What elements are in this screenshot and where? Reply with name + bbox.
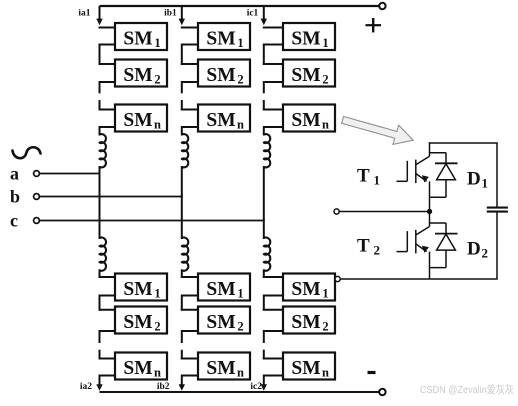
svg-text:SM: SM [206,358,235,379]
wire: upper arm drop from DC+ bus, phase c [263,6,265,20]
wire: dashed continuation (omitted SMs), upper arm phase a [99,81,101,93]
svg-text:n: n [154,366,161,380]
svg-text:D: D [467,168,481,189]
inductor: upper arm reactor, phase c [264,134,270,167]
wire: SM1 output stub, lower arm phase b [182,295,198,297]
svg-text:2: 2 [322,320,328,334]
submodule SM2, upper arm phase c [283,60,335,87]
wire: SMn to arm inductor, upper arm phase c [263,126,265,136]
svg-text:CSDN @Zevalin爱灰灰: CSDN @Zevalin爱灰灰 [420,383,514,396]
wire: SM1-SM2 link, upper arm phase a [99,44,101,66]
svg-text:c: c [10,211,18,231]
svg-text:1: 1 [154,36,160,50]
svg-text:SM: SM [291,279,320,300]
wire: SM2 output stub, lower arm phase c [264,330,283,332]
wire: SM2 output stub, upper arm phase b [182,81,198,83]
submodule SM1, lower arm phase a [115,274,167,301]
svg-text:n: n [322,366,329,380]
submodule SM1, upper arm phase a [115,23,167,50]
svg-text:T: T [357,236,370,257]
wire: stub to SM1 input, lower arm phase a [99,276,116,278]
wire: stub to SM2 input, lower arm phase a [99,309,116,311]
submodule SM2, upper arm phase b [198,60,250,87]
node: phase b AC terminal [34,194,40,200]
wire: SM2 output stub, lower arm phase b [182,330,198,332]
svg-text:ia1: ia1 [78,9,90,19]
svg-text:1: 1 [237,287,243,301]
wire: stub to SM1 input, lower arm phase b [181,276,198,278]
wire: SMn to arm inductor, upper arm phase a [99,126,101,136]
wire: dashed continuation (omitted SMs), lower arm phase c [263,330,265,343]
wire: inductor to SM1, lower arm phase c [263,269,265,278]
svg-text:a: a [10,164,19,184]
svg-text:2: 2 [322,73,328,87]
inductor: lower arm reactor, phase c [264,238,270,271]
wire: SM detail top rail [429,142,498,144]
submodule SM1, upper arm phase b [198,23,250,50]
wire: T1 emitter to midpoint [429,181,431,211]
wire: top DC bus (positive rail) [100,5,383,7]
wire: stub to SMn input, upper arm phase a [99,109,116,111]
svg-text:SM: SM [123,110,152,131]
submodule SMn, lower arm phase b [198,353,250,380]
wire: SM1-SM2 link, upper arm phase c [263,44,265,66]
wire: stub to SMn input, lower arm phase c [263,358,283,360]
wire: rail segment midpoint to T2 [429,212,431,227]
svg-text:1: 1 [374,172,381,187]
wire: SM2 output stub, lower arm phase a [100,330,116,332]
wire: stub to SM1 input, upper arm phase a [99,27,116,29]
wire: dashed continuation (omitted SMs), upper arm phase b [181,81,183,93]
submodule SM1, lower arm phase c [283,274,335,301]
submodule SMn, lower arm phase a [115,353,167,380]
submodule SMn, upper arm phase b [198,105,250,132]
wire: SM1 output stub, lower arm phase a [100,295,116,297]
submodule SM1, upper arm phase c [283,23,335,50]
wire: phase b line to leg midpoint [40,196,183,198]
wire: SM1 output stub, upper arm phase c [264,44,283,46]
svg-text:2: 2 [154,320,160,334]
wire: phase c line to leg midpoint [40,220,265,222]
svg-text:SM: SM [291,29,320,50]
node: SM detail mid terminal [334,209,339,214]
wire: phase a line to leg midpoint [40,173,101,175]
label: + (positive pole) [366,18,382,32]
wire: SM1-SM2 link, lower arm phase c [263,295,265,311]
node: midpoint junction dot [427,209,432,214]
svg-text:b: b [10,187,20,207]
svg-text:ic2: ic2 [250,382,262,392]
wire: stub to SM1 input, lower arm phase c [263,276,283,278]
svg-text:n: n [322,118,329,132]
wire: phase c leg mid-section [263,166,265,239]
svg-text:SM: SM [206,110,235,131]
submodule SMn, upper arm phase c [283,105,335,132]
wire: SM1-SM2 link, upper arm phase b [181,44,183,66]
inductor: lower arm reactor, phase b [182,238,188,271]
svg-text:SM: SM [291,110,320,131]
wire: lower arm to DC- bus, phase a [99,375,101,386]
diode D2 (antiparallel) [430,222,447,224]
svg-text:1: 1 [322,36,328,50]
svg-text:2: 2 [482,246,489,261]
svg-text:SM: SM [206,312,235,333]
wire: upper arm drop from DC+ bus, phase b [181,6,183,20]
svg-text:SM: SM [123,65,152,86]
wire: stub to SM1 input, upper arm phase b [181,27,198,29]
svg-text:n: n [237,118,244,132]
svg-text:SM: SM [206,65,235,86]
wire: SMn output stub, lower arm phase c [264,375,283,377]
svg-text:2: 2 [154,73,160,87]
wire: bottom DC bus (negative rail) [100,391,383,393]
svg-text:ia2: ia2 [80,382,92,392]
transistor Q2 (IGBT T2) [397,251,408,253]
wire: upper rail segment above T1 [429,142,431,156]
submodule SM2, lower arm phase b [198,307,250,334]
wire: stub to SM1 input, upper arm phase c [263,27,283,29]
arrow: arm current ib2 direction (down) [179,384,185,391]
svg-text:SM: SM [123,312,152,333]
inductor: lower arm reactor, phase a [100,238,106,271]
wire: stub to SM2 input, lower arm phase b [181,309,198,311]
svg-text:ib2: ib2 [157,382,170,392]
svg-text:SM: SM [291,358,320,379]
wire: SMn to arm inductor, upper arm phase b [181,126,183,136]
wire: capacitor branch upper [496,143,498,207]
submodule SM1, lower arm phase b [198,274,250,301]
wire: phase a leg mid-section [99,166,101,239]
arrow: arm current ic2 direction (down) [261,384,267,391]
wire: stub to SM2 input, upper arm phase c [263,63,283,65]
wire: SM1-SM2 link, lower arm phase a [99,295,101,311]
wire: lower arm to DC- bus, phase b [181,375,183,386]
submodule SM2, lower arm phase a [115,307,167,334]
wire: midpoint lead [339,211,429,213]
node: SM detail lower terminal [335,276,340,281]
wire: SM2 output stub, upper arm phase a [100,81,116,83]
wire: dashed continuation (omitted SMs), lower arm phase b [181,330,183,343]
svg-text:2: 2 [237,320,243,334]
wire: inductor to SM1, lower arm phase a [99,269,101,278]
diode D1 (antiparallel) [430,152,447,154]
submodule SM2, lower arm phase c [283,307,335,334]
wire: stub to SM2 input, lower arm phase c [263,309,283,311]
node: negative DC terminal [379,389,385,395]
svg-text:SM: SM [123,279,152,300]
arrow: arm current ia2 direction (down) [96,384,102,391]
wire: lower arm to DC- bus, phase c [263,375,265,386]
wire: SMn output stub, upper arm phase a [100,126,116,128]
svg-text:ib1: ib1 [164,9,177,19]
inductor: upper arm reactor, phase a [100,134,106,167]
submodule SMn, upper arm phase a [115,105,167,132]
svg-text:D: D [467,239,481,260]
arrow: arm current ib1 direction (down) [179,19,185,26]
svg-text:SM: SM [123,29,152,50]
wire: SMn output stub, lower arm phase a [100,375,116,377]
wire: SM1-SM2 link, lower arm phase b [181,295,183,311]
wire: stub to SMn input, upper arm phase b [181,109,198,111]
svg-text:1: 1 [482,175,489,190]
svg-text:SM: SM [206,279,235,300]
svg-text:1: 1 [322,287,328,301]
submodule SM2, upper arm phase a [115,60,167,87]
transistor Q1 (IGBT T1) [397,180,408,182]
wire: stub to SM2 input, upper arm phase b [181,63,198,65]
svg-text:T: T [357,165,370,186]
arrow: arm current ic1 direction (down) [261,19,267,26]
wire: phase b leg mid-section [181,166,183,239]
wire: dashed continuation (omitted SMs), lower arm phase a [99,330,101,343]
node: phase a AC terminal [34,171,40,177]
wire: stub to SMn input, lower arm phase b [181,358,198,360]
AC source symbol (sine squiggle) [13,147,41,158]
wire: upper arm drop from DC+ bus, phase a [99,6,101,20]
callout arrow: SM detail [342,117,414,145]
svg-text:SM: SM [123,358,152,379]
svg-text:n: n [154,118,161,132]
node: phase c AC terminal [34,218,40,224]
wire: SMn output stub, lower arm phase b [182,375,198,377]
wire: SMn output stub, upper arm phase b [182,126,198,128]
label: - (negative pole) [368,371,376,374]
inductor: upper arm reactor, phase b [182,134,188,167]
svg-text:2: 2 [374,243,381,258]
svg-text:2: 2 [237,73,243,87]
wire: T2 emitter to bottom rail [429,252,431,279]
wire: stub to SMn input, lower arm phase a [99,358,116,360]
wire: SM1 output stub, upper arm phase a [100,44,116,46]
node: positive DC terminal [379,3,385,9]
svg-text:SM: SM [206,29,235,50]
svg-text:ic1: ic1 [247,9,259,19]
wire: stub to SMn input, upper arm phase c [263,109,283,111]
wire: SM1 output stub, lower arm phase c [264,295,283,297]
arrow: arm current ia1 direction (down) [96,19,102,26]
wire: dashed continuation (omitted SMs), upper arm phase c [263,81,265,93]
svg-text:SM: SM [291,312,320,333]
wire: SM1 output stub, upper arm phase b [182,44,198,46]
wire: SM2 output stub, upper arm phase c [264,81,283,83]
submodule SMn, lower arm phase c [283,353,335,380]
wire: inductor to SM1, lower arm phase b [181,269,183,278]
svg-text:1: 1 [237,36,243,50]
wire: capacitor branch lower [496,212,498,279]
svg-text:SM: SM [291,65,320,86]
wire: SMn output stub, upper arm phase c [264,126,283,128]
wire: stub to SM2 input, upper arm phase a [99,63,116,65]
svg-text:n: n [237,366,244,380]
svg-text:1: 1 [154,287,160,301]
wire: bottom rail of SM detail [340,278,497,280]
capacitor C (SM storage) [487,207,508,209]
